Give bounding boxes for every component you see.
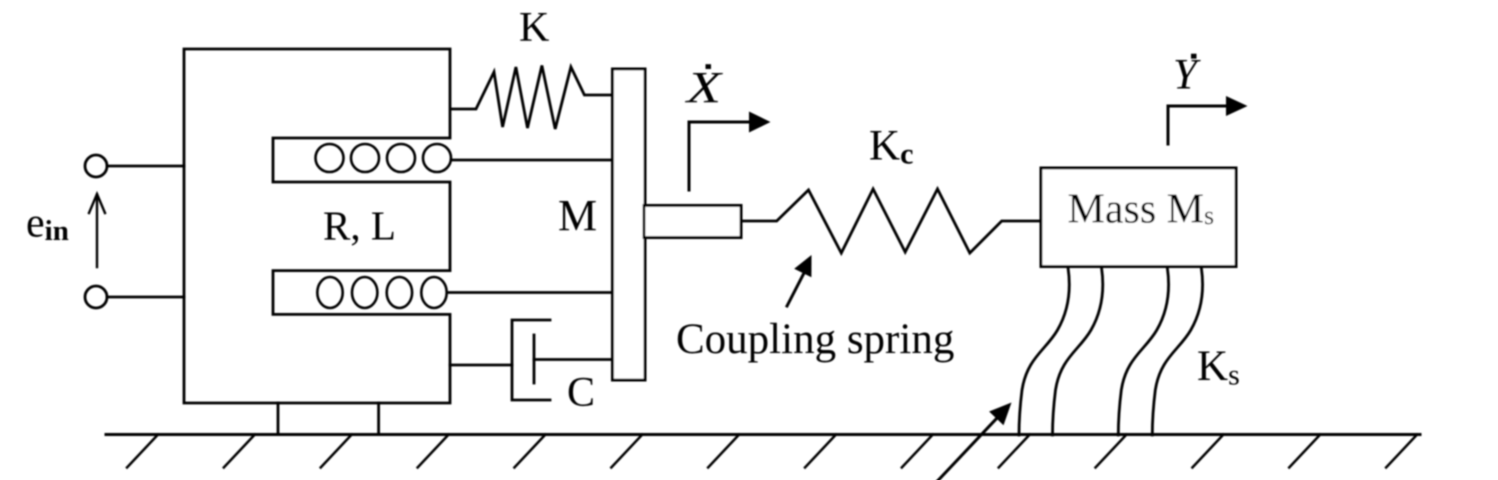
- ground hatching: [127, 435, 1417, 468]
- svg-text:R, L: R, L: [323, 203, 396, 249]
- svg-text:M: M: [558, 191, 597, 240]
- terminal top: [85, 155, 107, 177]
- leaf spring 4: [1152, 268, 1202, 436]
- rod from plate: [644, 206, 741, 238]
- ein reference arrow: [89, 194, 105, 267]
- Xdot arrow: [689, 122, 750, 190]
- damper C piston rod: [534, 358, 613, 361]
- leaf spring 2: [1053, 268, 1103, 436]
- svg-text:X: X: [685, 63, 724, 112]
- coil top (4 turns): [316, 144, 452, 172]
- leaf spring 3: [1118, 268, 1168, 436]
- svg-text:C: C: [567, 370, 595, 416]
- svg-text:Mass Ms: Mass Ms: [1068, 187, 1215, 233]
- damper C cylinder: [512, 320, 550, 400]
- damper C piston: [533, 335, 536, 383]
- Xdot dot: [706, 64, 712, 69]
- E-core block R,L: [184, 49, 450, 403]
- Ydot dot: [1191, 54, 1197, 59]
- pointer arrow to coupling spring: [787, 273, 804, 306]
- block support leg left: [277, 403, 280, 435]
- leaf spring 1: [1019, 268, 1069, 436]
- wire coil bottom to plate: [447, 291, 613, 294]
- wire coil top to plate: [451, 159, 613, 162]
- wire terminal top to block: [107, 165, 184, 168]
- mass plate M: [613, 69, 646, 380]
- mass Ms box: [1041, 168, 1236, 267]
- ground line: [106, 433, 1420, 436]
- label Xdot: [685, 63, 724, 112]
- coil bottom (4 turns): [317, 277, 446, 308]
- svg-text:K: K: [519, 5, 549, 51]
- spring K: [451, 66, 613, 130]
- damper C wire from block: [450, 364, 512, 367]
- svg-text:Coupling spring: Coupling spring: [676, 316, 954, 363]
- wire terminal bottom to block: [107, 296, 184, 299]
- coupling spring Kc: [741, 189, 1042, 253]
- terminal bottom: [85, 286, 107, 308]
- ground excitation arrow: [938, 418, 998, 480]
- Ydot arrow: [1168, 106, 1227, 144]
- block support leg right: [377, 403, 380, 435]
- svg-text:Y: Y: [1173, 52, 1201, 99]
